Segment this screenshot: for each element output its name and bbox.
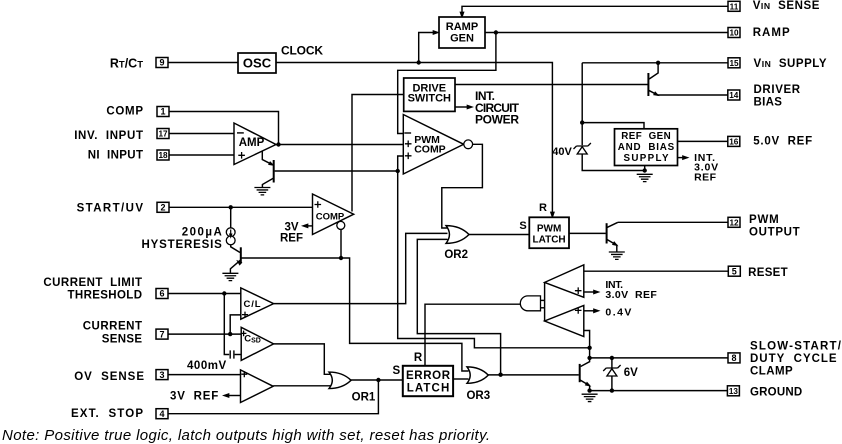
junction zener top node [580,120,584,124]
svg-text:RT/CT: RT/CT [110,57,143,71]
wire 6V zener connections [611,358,613,368]
svg-text:5: 5 [732,266,737,276]
arrowhead 3V REF reference [222,393,229,398]
wire comparator outputs to AND gate [544,282,546,321]
svg-text:VIN SENSE: VIN SENSE [753,0,820,12]
pin 9 box [156,58,168,68]
wire INV. INPUT pin 17 to amp [169,133,234,135]
wire ramp to PWM comp inverting input [398,33,496,134]
svg-text:11: 11 [730,3,739,12]
svg-text:PWM: PWM [537,223,561,234]
error latch box [403,366,453,396]
svg-text:RAMP: RAMP [446,21,478,33]
wire drive switch to int circuit power [455,106,469,108]
wire error latch output to OR3 [453,378,468,380]
junction Q1 base node [396,169,400,173]
wire pin6 node down to 400mV cap [224,294,229,355]
wire C/L comparator output to OR2 [274,233,448,303]
wire start node to current source [230,207,232,228]
wire Q5 emitter to ground line [589,386,591,391]
pin 2 box [157,202,169,212]
transistor Q1 emitter follower [262,152,272,165]
junction clamp node [587,356,591,360]
wire Q5 collector [581,358,590,367]
svg-text:S: S [519,220,526,232]
ground ref gen [637,174,653,181]
wire reset comp + reference [584,291,596,293]
junction OR3 output node [498,373,502,377]
svg-text:OR2: OR2 [444,249,468,261]
wire RAMP output to pin 10 [485,32,728,34]
wire VIN SENSE pin 11 to ramp gen top [462,6,728,13]
svg-text:GROUND: GROUND [750,387,802,399]
comparator PWM COMP [403,115,463,175]
svg-text:COMP: COMP [414,144,446,156]
svg-text:INV. INPUT: INV. INPUT [74,130,143,142]
svg-text:OUTPUT: OUTPUT [749,226,800,238]
wire C/L + input to pin7 line [230,315,241,334]
wire Q1 base to PWM comp node [275,170,398,172]
wire OV comp 3V REF reference [227,395,241,397]
svg-text:CURRENT LIMIT: CURRENT LIMIT [43,277,142,289]
or-gate OR2 [446,226,469,244]
wire ground line to pin 13 [590,390,728,392]
wire OR3 output up to OR2 [417,239,500,374]
or-gate OR1 [329,372,351,389]
plus sign OV [241,371,247,377]
plus sign 0.4V comp [575,307,582,314]
wire OR3 output to Q5 base [488,374,579,376]
svg-text:SLOW-START/: SLOW-START/ [750,341,842,353]
svg-text:OSC: OSC [243,56,272,71]
wire COMP output up to drive switch [352,95,404,212]
pin 13 box [727,386,739,396]
pwm latch box [529,217,569,248]
capacitor 400mV offset [230,350,234,358]
svg-text:8: 8 [731,353,736,363]
svg-text:R: R [414,352,423,364]
pin 6 box [156,289,168,299]
pin 3 box [156,370,168,380]
wire CLOCK from OSC to PWM latch R [276,63,552,214]
zener diode 40V [574,143,591,149]
svg-text:SWITCH: SWITCH [408,92,451,104]
svg-text:REF GEN: REF GEN [621,131,671,142]
svg-text:17: 17 [158,130,168,139]
plus sign reset comp [575,287,582,294]
svg-text:CLOCK: CLOCK [281,44,323,58]
wire NI INPUT pin 18 to amp [169,154,234,156]
svg-text:400mV: 400mV [187,360,227,372]
wire slow-start clamp to pin 8 [590,357,728,359]
wire ref gen int 3.0V ref output [678,157,685,159]
svg-text:EXT. STOP: EXT. STOP [71,408,143,420]
arrowhead int 3.0V ref [682,155,689,160]
wire 40V zener to ref gen ground [582,154,645,170]
arrowhead into ramp gen input [433,30,440,35]
transistor Q4 pwm output [606,223,608,243]
inverted output bubble [337,221,345,229]
oscillator OSC box [238,53,276,73]
svg-text:REF: REF [694,172,717,184]
svg-text:START/UV: START/UV [77,203,144,215]
comparator OV sense [241,370,274,403]
svg-text:C/L: C/L [244,299,261,310]
junction ground emitter [587,388,591,392]
wire amp output to PWM comp + input [276,144,403,146]
svg-text:OV SENSE: OV SENSE [74,371,144,383]
svg-text:CLAMP: CLAMP [750,365,793,377]
plus sign C/L [242,312,248,318]
svg-text:16: 16 [729,138,739,147]
svg-text:10: 10 [729,29,739,38]
junction start/uv node [229,205,233,209]
pin 4 box [156,409,168,419]
comparator COMP start/UV [313,194,354,235]
svg-text:200µA: 200µA [182,227,222,239]
pin 7 box [156,329,168,339]
arrowhead into PWM latch R input [550,212,555,219]
pin 1 box [157,107,169,117]
wire cap to Csd lower input [235,354,242,356]
wire Q3 emitter to DRIVER BIAS pin 14 [658,94,728,96]
wire START/UV pin 2 to comparator [168,206,313,208]
pin 10 box [728,28,740,38]
svg-text:DRIVER: DRIVER [754,84,801,96]
ramp generator box [439,17,485,48]
junction pin7 node [228,332,232,336]
svg-text:14: 14 [729,91,739,100]
junction clock/ramp-gen branch [417,60,421,64]
ground symbol output stage [582,394,598,401]
svg-text:1: 1 [160,107,165,117]
svg-text:THRESHOLD: THRESHOLD [68,290,143,302]
wire EXT. STOP pin 4 [167,380,378,414]
svg-text:SENSE: SENSE [102,333,143,345]
plus sign comp [315,201,322,208]
arrowhead to 0.4V label [593,308,600,313]
wire VIN SUPPLY pin 15 [582,62,728,64]
svg-text:4: 4 [159,409,164,419]
wire node to ref gen top [582,123,644,129]
svg-text:RAMP: RAMP [753,27,790,39]
svg-text:VIN SUPPLY: VIN SUPPLY [754,58,827,70]
wire error-amp node down to slow-start clamp [398,171,590,348]
svg-text:3.0V REF: 3.0V REF [605,289,657,301]
svg-text:AMP: AMP [239,137,265,149]
wire ref gen bottom to ground node [644,166,646,171]
svg-text:6: 6 [159,289,164,299]
wire RESET pin 5 to reset comparator [584,270,729,272]
wire PWM latch output to Q4 base [569,232,606,234]
wire Q4 collector to PWM OUTPUT pin 12 [618,221,728,223]
ref gen and bias supply box [615,129,678,166]
svg-text:0.4V: 0.4V [605,307,631,319]
svg-text:BIAS: BIAS [754,96,783,108]
transistor Q3 driver bias [647,73,649,96]
output bubble PWM comp [464,140,473,149]
minus sign amp [237,132,244,134]
and-gate reset [520,296,540,311]
svg-text:LATCH: LATCH [533,235,566,246]
pin 16 box [728,136,740,146]
junction ramp output [494,30,498,34]
pin 12 box [728,217,740,227]
svg-text:6V: 6V [624,367,638,379]
wire drive switch to Q3 base [455,84,648,86]
svg-text:15: 15 [729,59,739,68]
wire ref gen to 5.0V REF pin 16 [678,140,728,142]
svg-text:POWER: POWER [475,113,519,127]
junction Q3 collector [656,61,660,65]
arrowhead int circuit power [467,104,474,109]
svg-text:COMP: COMP [106,106,143,118]
comparator Csd [241,327,273,360]
wire current source to Q2 [231,244,240,252]
wire Q2 base to comparator inverted output [242,257,342,259]
wire PWM comp output to OR2 [442,144,483,228]
wire OV SENSE pin 3 to comparator [167,374,240,376]
wire supply down to 40V zener [581,63,583,145]
svg-text:RESET: RESET [748,267,788,279]
wire AND gate output to error latch R [425,304,520,366]
junction ref gen ground [643,168,647,172]
svg-text:R: R [539,202,547,214]
wire COMP pin 1 down to amp output [169,112,279,145]
svg-text:DUTY CYCLE: DUTY CYCLE [750,353,837,365]
junction 6V zener top [610,356,614,360]
svg-text:18: 18 [158,151,168,160]
wire start comparator output to OR3 [341,258,469,371]
svg-text:OR1: OR1 [352,392,376,404]
pin 5 box [728,266,740,276]
drive switch box [404,78,455,111]
ground Q1 [254,188,270,195]
svg-text:9: 9 [159,58,164,68]
svg-text:OR3: OR3 [466,390,490,402]
current source 200uA [226,228,235,237]
junction ext stop node [376,378,380,382]
junction clamp node upper [587,346,591,350]
svg-text:NI INPUT: NI INPUT [88,150,143,162]
wire 3V REF reference arrow [306,225,313,227]
svg-text:2: 2 [160,203,165,213]
junction pin6 node [222,291,226,295]
wire clock branch to ramp gen [419,33,436,63]
svg-text:12: 12 [729,219,739,228]
pin 18 box [157,150,169,160]
svg-text:HYSTERESIS: HYSTERESIS [142,239,223,251]
junction 6V zener bottom [610,388,614,392]
wire Q3 collector to VIN SUPPLY line [649,63,658,79]
arrowhead to INT. 3.0V REF label [593,289,600,294]
wire 0.4V comp lower input to clamp node [584,331,590,358]
wire RT/CT pin to OSC [168,62,238,64]
plus sign amp [238,152,245,159]
pin 15 box [728,58,740,68]
svg-text:PWM: PWM [749,214,779,226]
wire node to PWM comp second + input [398,156,404,171]
junction amp output node [276,142,280,146]
svg-text:CURRENT: CURRENT [83,321,142,333]
wire comparator bubble output down [340,229,342,258]
wire OV comp output to OR1 [273,385,334,387]
svg-text:Note: Positive true logic, lat: Note: Positive true logic, latch outputs… [2,427,490,444]
svg-text:LATCH: LATCH [407,383,450,395]
wire OR2 output to PWM latch S [469,234,530,236]
svg-text:ERROR: ERROR [406,370,451,382]
plus sign pwm comp 2 [405,153,412,160]
svg-text:7: 7 [159,329,164,339]
wire Csd output to OR1 [274,344,334,374]
ground Q4 [609,252,625,259]
ground Q2 [222,273,238,280]
junction hysteresis node [339,256,343,260]
arrowhead into ramp gen top [459,12,464,19]
plus sign pwm comp 1 [405,141,412,148]
svg-text:GEN: GEN [450,33,474,45]
minus sign pwm comp [404,132,411,134]
svg-text:40V: 40V [552,146,572,158]
svg-text:S: S [392,365,400,377]
wire CURRENT SENSE pin 7 to Csd comp [168,333,241,335]
svg-text:AND BIAS: AND BIAS [618,142,675,153]
svg-text:13: 13 [729,387,739,396]
pin 14 box [728,90,740,100]
zener diode 6V [603,365,620,371]
transistor Q5 clamp [579,364,581,382]
pin 11 box [728,1,740,11]
svg-text:3V REF: 3V REF [170,391,218,403]
plus sign Csd [241,331,247,337]
wire 0.4V comp + reference [584,310,596,312]
or-gate OR3 [467,367,488,383]
svg-text:5.0V REF: 5.0V REF [753,136,812,148]
wire CURRENT LIMIT pin 6 to C/L comp [168,293,241,295]
comparator C/L [241,288,274,319]
comparator reset upper [545,265,584,297]
pin 8 box [728,353,740,363]
wire OR1 output to error latch S [351,379,403,381]
comparator 0.4V lower [545,305,584,336]
transistor Q2 hysteresis [240,247,242,263]
op-amp AMP [234,123,276,165]
svg-text:REF: REF [280,233,303,245]
pin 17 box [157,129,169,139]
svg-text:3: 3 [159,370,164,380]
